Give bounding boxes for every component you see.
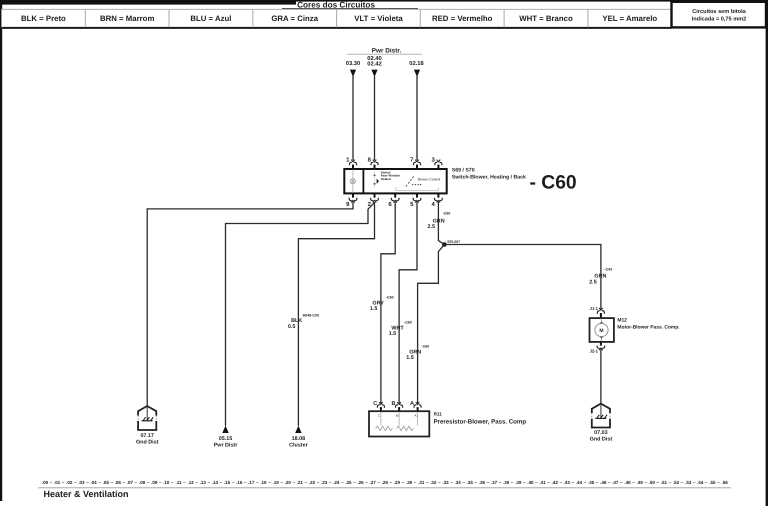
off-page arrow from 02.16 bbox=[414, 70, 420, 77]
wire label C60 WHT 1.5 bbox=[389, 320, 412, 337]
svg-text:SPL207: SPL207 bbox=[447, 240, 460, 244]
svg-text:.24: .24 bbox=[333, 480, 340, 485]
svg-text:.09: .09 bbox=[151, 480, 158, 485]
svg-text:J2-1: J2-1 bbox=[590, 348, 599, 353]
wire pin 2 to 18.08 bbox=[298, 202, 374, 426]
svg-text:M12: M12 bbox=[617, 317, 627, 323]
svg-text:1.5: 1.5 bbox=[370, 306, 378, 312]
svg-text:YEL = Amarelo: YEL = Amarelo bbox=[602, 14, 657, 23]
off-page arrow from 03.30 bbox=[350, 70, 356, 77]
svg-text:VLT = Violeta: VLT = Violeta bbox=[354, 14, 403, 23]
svg-text:Gnd Dist: Gnd Dist bbox=[136, 440, 159, 446]
motor M12 bbox=[590, 318, 614, 342]
pin 8 connector bbox=[368, 156, 378, 169]
svg-text:6: 6 bbox=[388, 201, 392, 208]
svg-text:.43: .43 bbox=[564, 480, 571, 485]
connector J1-1 bbox=[590, 306, 605, 319]
svg-text:07.17: 07.17 bbox=[140, 433, 154, 439]
wire pin 4 to splice bbox=[438, 202, 444, 245]
svg-text:Heater & Ventilation: Heater & Ventilation bbox=[44, 489, 129, 499]
svg-text:.06: .06 bbox=[115, 480, 122, 485]
svg-text:.00: .00 bbox=[42, 480, 49, 485]
svg-text:Circuitos sem bitola: Circuitos sem bitola bbox=[692, 8, 746, 15]
svg-text:Motor-Blower Pass. Comp.: Motor-Blower Pass. Comp. bbox=[617, 325, 680, 331]
svg-text:.56: .56 bbox=[721, 480, 728, 485]
svg-text:03.30: 03.30 bbox=[346, 60, 361, 67]
svg-text:- C60: - C60 bbox=[530, 173, 577, 194]
svg-text:Indicada = 0,75 mm2: Indicada = 0,75 mm2 bbox=[692, 15, 747, 22]
switch blower control detail bbox=[396, 175, 441, 190]
svg-text:M: M bbox=[599, 328, 603, 334]
resistor terminal B bbox=[391, 401, 402, 412]
svg-text:1.5: 1.5 bbox=[389, 331, 397, 337]
wire label 8D49-C50 BLK 0.5 bbox=[288, 313, 319, 329]
svg-text:02.42: 02.42 bbox=[367, 60, 382, 67]
svg-text:07.03: 07.03 bbox=[594, 430, 608, 436]
svg-text:1: 1 bbox=[346, 156, 350, 163]
svg-text:05.15: 05.15 bbox=[219, 436, 233, 442]
svg-text:Heated: Heated bbox=[381, 177, 391, 181]
legend title Cores dos Circuitos bbox=[282, 1, 418, 10]
switch S69/S70 box bbox=[344, 169, 446, 193]
off-page arrow 18.08 bbox=[295, 426, 301, 433]
svg-text:.28: .28 bbox=[382, 480, 389, 485]
svg-text:C: C bbox=[373, 401, 377, 407]
svg-text:.27: .27 bbox=[369, 480, 376, 485]
svg-text:-C60: -C60 bbox=[421, 344, 429, 348]
svg-text:.22: .22 bbox=[309, 480, 316, 485]
svg-text:.52: .52 bbox=[673, 480, 680, 485]
svg-text:5: 5 bbox=[410, 201, 414, 208]
wire pin 2 to 05.15 bbox=[226, 202, 375, 425]
label Pwr Distr. bbox=[347, 48, 422, 55]
svg-text:Cluster: Cluster bbox=[289, 443, 308, 449]
svg-text:BLK = Preto: BLK = Preto bbox=[21, 14, 66, 23]
wire arrow 03.30 to pin 1 bbox=[352, 76, 354, 160]
svg-text:1.5: 1.5 bbox=[406, 355, 414, 361]
ground symbol 07.03 bbox=[592, 404, 610, 428]
pin 2 connector bbox=[368, 193, 379, 208]
svg-text:.11: .11 bbox=[175, 480, 182, 485]
svg-text:.49: .49 bbox=[636, 480, 643, 485]
svg-text:.05: .05 bbox=[103, 480, 110, 485]
wire arrow 02.40 to pin 8 bbox=[374, 76, 376, 160]
svg-text:.26: .26 bbox=[357, 480, 364, 485]
ruler baseline bbox=[38, 487, 731, 489]
svg-text:.34: .34 bbox=[454, 480, 461, 485]
svg-text:S69 / S70: S69 / S70 bbox=[452, 168, 475, 174]
bottom ruler scale bbox=[42, 480, 728, 485]
svg-text:7: 7 bbox=[410, 156, 414, 163]
note box Circuitos sem bitola bbox=[672, 2, 767, 28]
svg-text:Pwr Distr: Pwr Distr bbox=[214, 443, 239, 449]
svg-text:.29: .29 bbox=[394, 480, 401, 485]
wire pin 6 to resistor C bbox=[381, 202, 395, 405]
svg-text:0.5: 0.5 bbox=[288, 324, 296, 330]
svg-text:.17: .17 bbox=[248, 480, 255, 485]
svg-text:.20: .20 bbox=[285, 480, 292, 485]
wire motor to ground G2 bbox=[600, 349, 602, 404]
label 02.40 02.42 bbox=[367, 55, 382, 67]
svg-text:.55: .55 bbox=[709, 480, 716, 485]
lamp symbol inside switch bbox=[350, 169, 355, 193]
wire label C43 GRN 2.5 bbox=[589, 267, 612, 285]
svg-text:3: 3 bbox=[432, 156, 436, 163]
label 18.08 Cluster bbox=[289, 436, 308, 448]
wire label C60 GRN 1.5 bbox=[406, 344, 429, 361]
svg-text:.44: .44 bbox=[576, 480, 583, 485]
svg-text:.31: .31 bbox=[418, 480, 425, 485]
svg-text:.54: .54 bbox=[697, 480, 704, 485]
splice SPL207 bbox=[442, 240, 460, 247]
label 07.03 Gnd Dist bbox=[590, 430, 613, 442]
svg-text:Gnd Dist: Gnd Dist bbox=[590, 436, 613, 442]
pin 4 connector bbox=[432, 193, 443, 208]
svg-text:.14: .14 bbox=[212, 480, 219, 485]
svg-text:.18: .18 bbox=[260, 480, 267, 485]
svg-text:.02: .02 bbox=[66, 480, 73, 485]
pin 5 connector bbox=[410, 193, 421, 208]
svg-text:.13: .13 bbox=[200, 480, 207, 485]
svg-text:.32: .32 bbox=[430, 480, 437, 485]
pin 6 connector bbox=[388, 193, 399, 208]
svg-text:.12: .12 bbox=[187, 480, 194, 485]
svg-text:Blower Control: Blower Control bbox=[418, 177, 440, 181]
svg-text:18.08: 18.08 bbox=[292, 436, 306, 442]
svg-text:9: 9 bbox=[346, 201, 350, 208]
svg-text:.40: .40 bbox=[527, 480, 534, 485]
svg-text:-C60: -C60 bbox=[386, 296, 394, 300]
label R11 Preresistor bbox=[434, 412, 527, 426]
svg-text:.33: .33 bbox=[442, 480, 449, 485]
svg-text:.37: .37 bbox=[491, 480, 498, 485]
svg-text:A: A bbox=[410, 401, 414, 407]
svg-text:.51: .51 bbox=[661, 480, 668, 485]
label M12 Motor-Blower bbox=[617, 317, 680, 330]
svg-text:R11: R11 bbox=[434, 412, 443, 417]
svg-text:2.5: 2.5 bbox=[428, 224, 436, 230]
svg-text:.38: .38 bbox=[503, 480, 510, 485]
svg-text:J1-1: J1-1 bbox=[590, 306, 599, 311]
pin 7 connector bbox=[410, 156, 420, 169]
svg-text:.48: .48 bbox=[624, 480, 631, 485]
svg-text:.39: .39 bbox=[515, 480, 522, 485]
svg-text:Pwr Distr.: Pwr Distr. bbox=[372, 48, 402, 55]
wire splice to motor bbox=[444, 245, 601, 310]
svg-text:8D49-C50: 8D49-C50 bbox=[303, 313, 319, 317]
resistor terminal C bbox=[373, 401, 384, 412]
svg-text:.41: .41 bbox=[539, 480, 546, 485]
pin 9 connector bbox=[346, 193, 357, 208]
pin 3 connector bbox=[432, 156, 442, 169]
svg-text:Preresistor-Blower, Pass. Comp: Preresistor-Blower, Pass. Comp bbox=[434, 418, 527, 425]
ground symbol 07.17 bbox=[138, 406, 156, 430]
svg-text:.45: .45 bbox=[588, 480, 595, 485]
svg-text:GRA = Cinza: GRA = Cinza bbox=[271, 14, 318, 23]
svg-text:.50: .50 bbox=[649, 480, 656, 485]
svg-text:-C60: -C60 bbox=[404, 320, 412, 324]
wire pin 5 to resistor B bbox=[399, 202, 417, 405]
svg-text:BLU = Azul: BLU = Azul bbox=[190, 14, 231, 23]
pin 1 connector bbox=[346, 156, 356, 169]
svg-text:-C60: -C60 bbox=[443, 211, 451, 215]
svg-text:2.5: 2.5 bbox=[589, 280, 597, 286]
svg-text:.03: .03 bbox=[78, 480, 85, 485]
wire pin 9 to ground G1 bbox=[147, 202, 353, 406]
wire label C60 GRY 1.5 bbox=[370, 296, 394, 313]
label S69/S70 Switch-Blower bbox=[452, 168, 526, 181]
svg-text:B: B bbox=[391, 401, 395, 407]
svg-text:WHT = Branco: WHT = Branco bbox=[519, 14, 573, 23]
svg-text:.15: .15 bbox=[224, 480, 231, 485]
switch internal detail text bbox=[374, 169, 401, 187]
label 07.17 Gnd Dist bbox=[136, 433, 159, 445]
svg-text:BRN = Marrom: BRN = Marrom bbox=[100, 14, 154, 23]
svg-text:.19: .19 bbox=[272, 480, 279, 485]
svg-text:8: 8 bbox=[368, 156, 372, 163]
svg-text:.08: .08 bbox=[139, 480, 146, 485]
svg-text:.07: .07 bbox=[127, 480, 134, 485]
svg-text:RED = Vermelho: RED = Vermelho bbox=[432, 14, 493, 23]
svg-text:.46: .46 bbox=[600, 480, 607, 485]
svg-text:-C43: -C43 bbox=[604, 267, 612, 271]
svg-text:.30: .30 bbox=[406, 480, 413, 485]
connector J2-1 bbox=[590, 341, 605, 353]
wire label C60 GRN 2.5 bbox=[428, 211, 451, 230]
svg-text:.35: .35 bbox=[467, 480, 474, 485]
legend table row bbox=[2, 9, 672, 28]
svg-text:.47: .47 bbox=[612, 480, 619, 485]
svg-text:.53: .53 bbox=[685, 480, 692, 485]
svg-text:.01: .01 bbox=[54, 480, 61, 485]
label 05.15 Pwr Distr bbox=[214, 436, 239, 448]
svg-text:.36: .36 bbox=[479, 480, 486, 485]
off-page arrow from 02.40/02.42 bbox=[371, 70, 377, 77]
svg-text:02.16: 02.16 bbox=[409, 60, 424, 67]
wire arrow 02.16 to pin 7 bbox=[416, 76, 418, 160]
svg-text:.10: .10 bbox=[163, 480, 170, 485]
svg-text:.16: .16 bbox=[236, 480, 243, 485]
svg-text:4: 4 bbox=[432, 201, 436, 208]
svg-text:.25: .25 bbox=[345, 480, 352, 485]
wire splice to resistor A bbox=[418, 245, 445, 405]
resistor R11 box bbox=[369, 411, 429, 436]
svg-text:.21: .21 bbox=[297, 480, 304, 485]
resistor terminal A bbox=[410, 401, 421, 412]
svg-text:Switch-Blower, Heating / Back: Switch-Blower, Heating / Back bbox=[452, 175, 526, 181]
svg-text:.04: .04 bbox=[90, 480, 97, 485]
svg-text:Cores dos Circuitos: Cores dos Circuitos bbox=[297, 1, 375, 10]
svg-text:.42: .42 bbox=[552, 480, 559, 485]
svg-text:.23: .23 bbox=[321, 480, 328, 485]
off-page arrow 05.15 bbox=[222, 426, 228, 433]
